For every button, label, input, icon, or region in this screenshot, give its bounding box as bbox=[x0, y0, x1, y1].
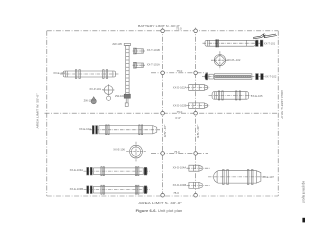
svg-text:75.0: 75.0 bbox=[177, 69, 183, 73]
svg-text:XX-T-101: XX-T-101 bbox=[264, 42, 276, 46]
svg-text:75.0: 75.0 bbox=[174, 150, 180, 154]
svg-text:AREA LIMIT W. 55'-0": AREA LIMIT W. 55'-0" bbox=[36, 94, 40, 129]
svg-text:75.0: 75.0 bbox=[177, 110, 183, 114]
svg-text:XX-D-102B: XX-D-102B bbox=[173, 103, 187, 107]
svg-text:XX-P-101: XX-P-101 bbox=[89, 87, 101, 91]
svg-text:0'-0": 0'-0" bbox=[175, 116, 181, 120]
svg-text:15'-0": 15'-0" bbox=[163, 124, 167, 137]
svg-text:15'-0": 15'-0" bbox=[196, 124, 200, 138]
svg-text:XX-PL-102: XX-PL-102 bbox=[227, 58, 241, 62]
svg-text:ZW-11: ZW-11 bbox=[84, 98, 92, 102]
svg-text:XX-E-105: XX-E-105 bbox=[251, 94, 263, 98]
svg-text:75.0: 75.0 bbox=[173, 191, 179, 195]
svg-text:XX-T-101B: XX-T-101B bbox=[147, 48, 160, 52]
svg-text:XX-D-104A: XX-D-104A bbox=[173, 165, 187, 169]
svg-text:AREA LIMIT E. 50'-0": AREA LIMIT E. 50'-0" bbox=[280, 90, 284, 119]
svg-text:XX-T-101A: XX-T-101A bbox=[147, 63, 160, 67]
svg-text:XX-D-104B: XX-D-104B bbox=[173, 183, 187, 187]
svg-text:Figure 6-6. Unit plot plan: Figure 6-6. Unit plot plan bbox=[136, 208, 183, 213]
svg-text:XX-E-104: XX-E-104 bbox=[79, 127, 91, 131]
svg-text:XX-D-102A: XX-D-102A bbox=[173, 86, 187, 90]
svg-text:ZW-105: ZW-105 bbox=[112, 42, 122, 46]
svg-text:XX-E-107: XX-E-107 bbox=[262, 175, 274, 179]
svg-text:75.0: 75.0 bbox=[176, 27, 182, 31]
svg-text:ZW-101: ZW-101 bbox=[115, 94, 125, 98]
svg-text:XX-E-101: XX-E-101 bbox=[53, 71, 65, 75]
svg-text:XX-T-102: XX-T-102 bbox=[265, 74, 277, 78]
svg-text:equipment layout: equipment layout bbox=[302, 181, 306, 203]
svg-text:XX-E-103B: XX-E-103B bbox=[70, 187, 84, 191]
svg-text:AREA LIMIT S. 40'-0": AREA LIMIT S. 40'-0" bbox=[138, 201, 182, 205]
svg-text:BATTERY LIMIT N. 40'-0": BATTERY LIMIT N. 40'-0" bbox=[138, 24, 180, 28]
svg-text:XX-E-106: XX-E-106 bbox=[113, 148, 125, 152]
svg-text:XX-E-103A: XX-E-103A bbox=[70, 168, 84, 172]
